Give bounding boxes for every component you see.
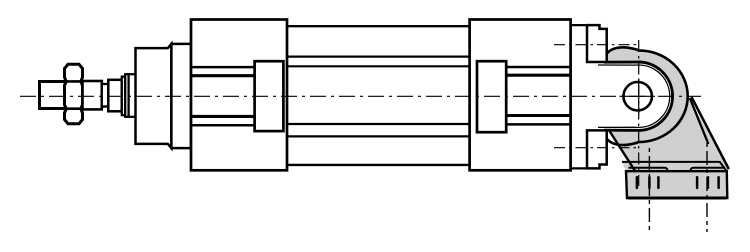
foot front face gray: [626, 171, 727, 198]
left cap block: [255, 61, 284, 131]
gusset front edge: [692, 97, 729, 169]
bottom prong block: [587, 130, 607, 168]
slot centerlines: [648, 148, 650, 232]
outer head boundary stroke (ellipse): [607, 47, 688, 142]
piece C: [125, 74, 128, 117]
hole crosshair long dashes: [620, 95, 656, 97]
foot outlines: [622, 162, 727, 171]
gland D with chamfered right corners: [136, 44, 172, 148]
white slot band + boss interior: [606, 64, 671, 129]
collar A: [108, 80, 122, 112]
right cap internal lines: [506, 67, 570, 124]
inner thin arc + tangent edges: [598, 65, 670, 127]
slot top lines: [629, 168, 668, 171]
strip lines cap to blocks: [572, 24, 588, 26]
gusset gray: [618, 92, 730, 171]
left end cap: [191, 20, 287, 171]
left slant to foot: [610, 131, 636, 171]
rod: [83, 81, 102, 109]
top prong block: [587, 25, 607, 62]
piston rod thread: [40, 82, 66, 109]
hex nut: [65, 64, 83, 123]
foot top face gray: [622, 162, 727, 171]
left cap internal lines: [191, 67, 255, 125]
pin hole: [624, 82, 652, 110]
barrel lines: [287, 26, 470, 165]
main axis centerline: [20, 95, 701, 97]
step B: [122, 77, 125, 116]
right end cap: [470, 20, 571, 171]
rod lines through nut: [63, 80, 84, 83]
eye vertical centerline: [638, 40, 640, 186]
slot verticals: [637, 177, 719, 188]
cover E: [171, 44, 191, 148]
boss arc thick + tangent slot edges: [604, 62, 673, 130]
connector lines C to D: [129, 73, 136, 75]
head ring gray: [606, 48, 688, 145]
neck: [102, 84, 109, 107]
white wedge between slant and bottom ear: [607, 131, 618, 143]
right cap block: [477, 61, 506, 132]
gusset back edge: [690, 98, 709, 144]
screw axis centerlines: [554, 44, 639, 46]
